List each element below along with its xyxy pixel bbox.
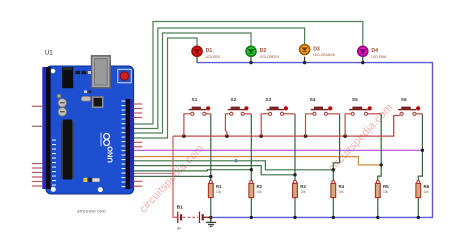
svg-text:10k: 10k [383,190,389,194]
svg-text:S3: S3 [265,97,271,103]
svg-text:9v: 9v [177,227,181,231]
svg-text:R6: R6 [424,184,430,189]
svg-text:10k: 10k [216,190,222,194]
svg-text:10k: 10k [424,190,430,194]
svg-text:D4: D4 [371,48,378,54]
svg-text:S4: S4 [310,97,316,103]
svg-text:ARDUINO: ARDUINO [99,132,103,147]
svg-text:S1: S1 [192,97,198,103]
svg-text:ARDUINO UNO: ARDUINO UNO [77,210,106,214]
svg-text:R4: R4 [339,184,345,189]
svg-text:10k: 10k [339,190,345,194]
svg-text:D3: D3 [313,46,320,52]
svg-text:10k: 10k [300,190,306,194]
svg-text:LED-GREEN: LED-GREEN [260,55,280,59]
svg-text:UNO: UNO [106,146,115,163]
svg-text:S2: S2 [231,97,237,103]
svg-text:R3: R3 [300,184,306,189]
svg-text:D1: D1 [206,48,213,54]
svg-text:LED-PINK: LED-PINK [371,55,387,59]
svg-text:B1: B1 [177,205,183,211]
svg-text:LED-RED: LED-RED [206,55,221,59]
svg-text:LED-ORANGE: LED-ORANGE [313,53,336,57]
svg-text:U1: U1 [45,51,53,57]
svg-text:S5: S5 [352,97,358,103]
svg-text:R1: R1 [216,184,222,189]
svg-text:R2: R2 [257,184,263,189]
svg-text:S6: S6 [401,97,407,103]
svg-text:10k: 10k [257,190,263,194]
svg-text:D2: D2 [260,48,267,54]
svg-text:R5: R5 [383,184,389,189]
